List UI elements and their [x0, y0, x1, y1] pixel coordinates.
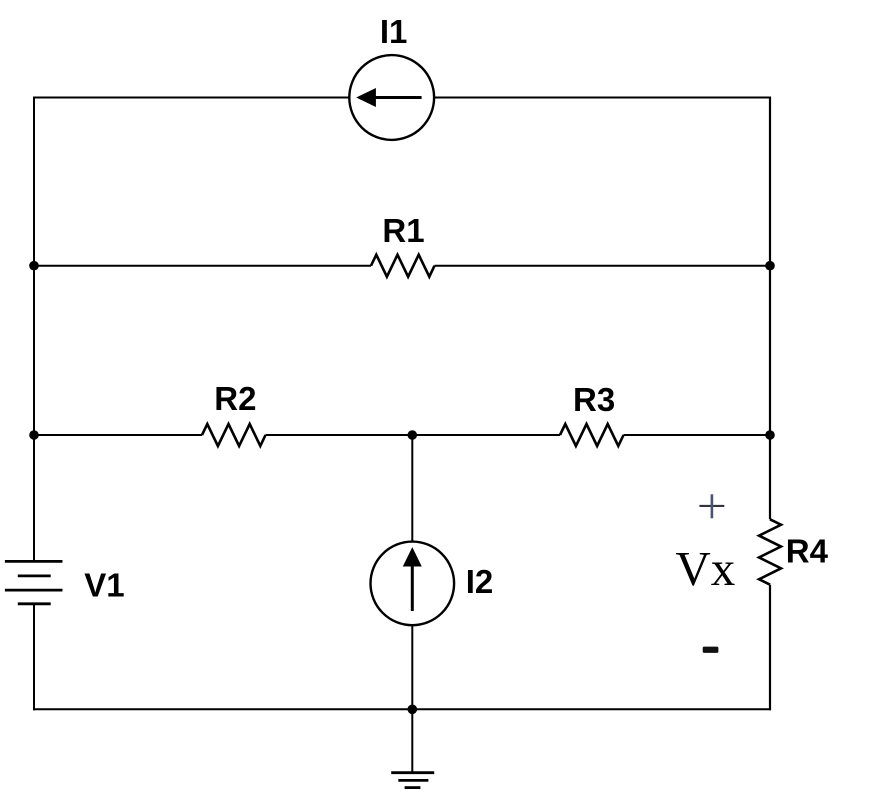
wire right rail upper — [769, 97, 771, 520]
wire mid rail right — [624, 434, 771, 436]
wire R1 rail right — [435, 265, 771, 267]
svg-text:R1: R1 — [382, 212, 424, 249]
wire bottom rail — [33, 708, 771, 710]
ground — [391, 709, 434, 787]
svg-text:I1: I1 — [380, 13, 408, 50]
svg-text:V1: V1 — [84, 566, 124, 603]
node dot right R1 — [765, 261, 775, 271]
svg-text:I2: I2 — [466, 563, 494, 600]
wire top rail left segment — [33, 97, 349, 99]
node dot center mid — [408, 430, 418, 440]
wire mid vertical upper — [411, 435, 413, 542]
resistor R1 — [371, 255, 435, 277]
resistor R4 — [759, 519, 781, 584]
svg-text:R3: R3 — [573, 381, 615, 418]
svg-text:R2: R2 — [214, 380, 256, 417]
wire right rail lower — [769, 585, 771, 711]
node dot bottom — [408, 705, 418, 715]
voltage source V1 battery — [5, 561, 63, 603]
current source I2 — [371, 542, 455, 626]
wire left rail upper — [33, 97, 35, 562]
svg-text:R4: R4 — [786, 533, 829, 570]
label minus — [703, 647, 719, 653]
wire R1 rail left — [34, 265, 371, 267]
current source I1 — [349, 55, 434, 140]
node dot right mid — [765, 430, 775, 440]
resistor R2 — [202, 424, 266, 446]
resistor R3 — [560, 424, 624, 446]
node dot left mid — [29, 430, 39, 440]
wire mid rail left — [34, 434, 202, 436]
node dot left R1 — [29, 261, 39, 271]
label plus — [699, 494, 724, 518]
wire top rail right segment — [434, 97, 771, 99]
svg-text:Vx: Vx — [675, 541, 735, 596]
wire mid rail center — [266, 434, 561, 436]
wire mid vertical lower — [411, 625, 413, 709]
wire left rail lower — [33, 604, 35, 711]
